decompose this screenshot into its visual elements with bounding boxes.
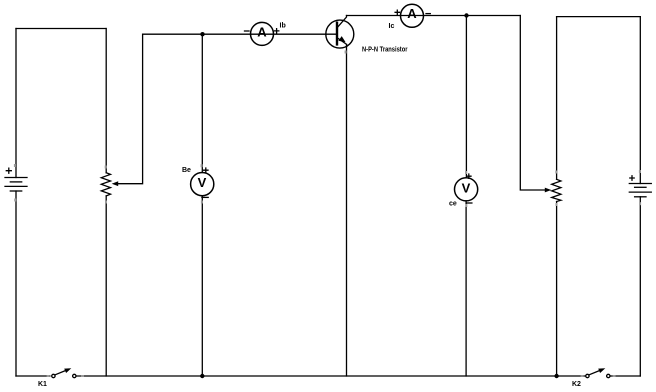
svg-text:ce: ce: [449, 201, 457, 208]
svg-text:Ic: Ic: [389, 23, 395, 30]
svg-text:Ib: Ib: [280, 23, 286, 30]
svg-text:Be: Be: [182, 167, 191, 174]
svg-text:V: V: [462, 180, 471, 195]
svg-text:K1: K1: [38, 381, 47, 388]
svg-text:K2: K2: [572, 381, 581, 388]
svg-text:N-P-N Transistor: N-P-N Transistor: [362, 47, 408, 54]
svg-text:A: A: [407, 6, 417, 21]
svg-text:V: V: [198, 175, 207, 190]
svg-text:A: A: [257, 24, 267, 39]
